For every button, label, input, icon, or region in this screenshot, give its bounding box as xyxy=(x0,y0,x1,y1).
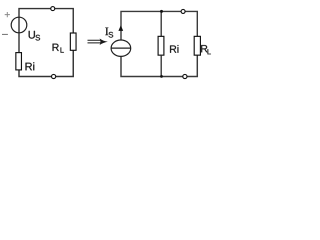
label R_L (left) xyxy=(53,44,59,51)
resistor R_L (right) box xyxy=(194,36,200,55)
plus sign xyxy=(5,12,10,17)
wire left circuit top loop xyxy=(19,9,73,53)
junction dot top xyxy=(160,10,163,13)
wire Ri branch upper stub xyxy=(160,11,162,36)
resistor Ri (right) box xyxy=(158,36,164,55)
node terminal top-right circuit xyxy=(181,9,185,13)
label Ri (right) xyxy=(170,45,178,53)
wire right circuit bottom loop xyxy=(121,55,197,76)
implies arrow xyxy=(88,40,101,43)
node terminal bottom-right circuit xyxy=(183,74,187,78)
node terminal bottom-left circuit xyxy=(52,74,56,78)
voltage source U_S circle xyxy=(11,17,27,33)
wire left circuit bottom loop xyxy=(19,50,73,76)
resistor Ri (left) box xyxy=(16,53,22,70)
node terminal top-left circuit xyxy=(51,7,55,11)
current source bar xyxy=(111,47,131,49)
junction dot bottom xyxy=(160,75,163,78)
label R_L (right) xyxy=(201,45,207,52)
wire Ri branch lower stub xyxy=(160,55,162,76)
minus sign xyxy=(2,33,8,35)
label Ri (left) xyxy=(26,62,35,70)
current source I_S circle xyxy=(111,40,131,56)
label U_S xyxy=(29,31,35,39)
resistor R_L (left) box xyxy=(70,33,76,50)
wire right circuit top loop xyxy=(121,11,197,40)
current direction arrowhead xyxy=(118,25,123,31)
label I_S xyxy=(105,28,108,36)
